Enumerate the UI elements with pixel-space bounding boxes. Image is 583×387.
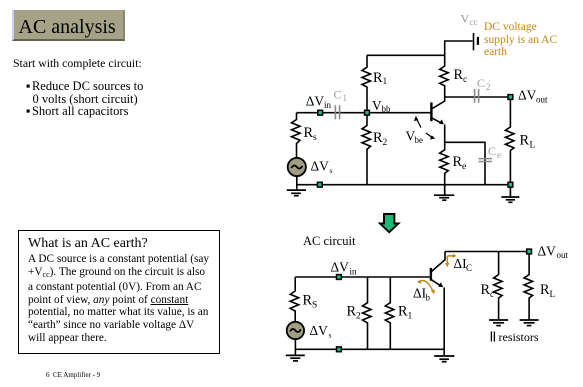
wire bottom rail xyxy=(297,184,511,186)
svg-text:ΔV: ΔV xyxy=(518,88,537,103)
label dVout xyxy=(518,88,548,105)
svg-text:ΔV: ΔV xyxy=(331,260,350,275)
wire Vcc stub xyxy=(445,41,473,55)
svg-text:ΔV: ΔV xyxy=(311,159,330,174)
svg-text:L: L xyxy=(530,140,536,150)
node RL bottom dot xyxy=(508,182,513,187)
svg-text:R: R xyxy=(540,282,550,298)
svg-text:1: 1 xyxy=(343,93,348,103)
svg-text:C: C xyxy=(488,144,496,158)
transistor Q (AC) xyxy=(431,252,445,357)
svg-text:ΔV: ΔV xyxy=(310,323,329,338)
svg-text:R: R xyxy=(481,282,491,298)
svg-text:2: 2 xyxy=(486,82,491,92)
svg-text:ΔI: ΔI xyxy=(454,256,467,271)
svg-text:be: be xyxy=(415,135,424,145)
ground under RL xyxy=(501,185,519,203)
label parallel resistors xyxy=(491,332,494,342)
svg-text:s: s xyxy=(330,166,333,175)
svg-text:2: 2 xyxy=(356,312,361,322)
resistor Re xyxy=(440,142,467,184)
svg-text:b: b xyxy=(426,293,431,303)
resistor R2 xyxy=(362,113,388,185)
battery Vcc supply xyxy=(474,33,478,50)
wire collector to output through C2 xyxy=(445,96,511,98)
label dVin xyxy=(306,93,332,110)
svg-text:R: R xyxy=(304,125,314,141)
ground bottom-left xyxy=(286,355,305,361)
resistor RL (AC) xyxy=(524,252,555,321)
green arrow down xyxy=(380,214,399,232)
wire input top (base line) xyxy=(295,276,430,278)
svg-text:in: in xyxy=(350,267,358,277)
svg-text:V: V xyxy=(461,12,470,26)
wire source to ground xyxy=(296,176,298,190)
svg-text:C: C xyxy=(466,263,472,273)
transistor Q1 xyxy=(431,97,444,142)
resistor R2 (AC) xyxy=(347,277,372,349)
svg-text:2: 2 xyxy=(383,138,388,148)
svg-text:e: e xyxy=(497,150,501,160)
svg-text:R: R xyxy=(373,130,383,146)
svg-text:R: R xyxy=(373,70,383,86)
ground under Re xyxy=(434,185,454,201)
node input dot xyxy=(318,110,323,115)
svg-text:R: R xyxy=(303,293,313,309)
resistor RS xyxy=(290,277,317,322)
svg-text:out: out xyxy=(536,94,548,104)
svg-text:s: s xyxy=(329,331,332,340)
resistor R1 xyxy=(362,55,388,112)
capacitor Ce (shorted, gray) xyxy=(479,144,502,162)
what is an AC earth box xyxy=(18,230,220,354)
resistor RL xyxy=(505,97,535,185)
svg-text:s: s xyxy=(313,133,317,143)
svg-text:V: V xyxy=(372,98,382,113)
svg-text:1: 1 xyxy=(383,77,388,87)
ground left xyxy=(287,190,306,196)
svg-text:e: e xyxy=(462,162,466,172)
AC circuit label xyxy=(303,234,355,249)
svg-text:resistors: resistors xyxy=(499,330,539,344)
label dIC with orange arrow xyxy=(445,254,472,273)
node bottom-left dot xyxy=(317,182,322,187)
resistor Rc xyxy=(440,55,468,97)
wire bottom rail (AC) xyxy=(295,348,444,350)
source dVs xyxy=(288,158,333,176)
node Vbb dot xyxy=(365,110,370,115)
svg-text:1: 1 xyxy=(408,312,413,322)
note: DC voltage supply is an AC earth xyxy=(484,21,557,59)
svg-text:ΔV: ΔV xyxy=(306,93,325,108)
svg-text:cc: cc xyxy=(470,17,478,27)
label Vbe with arrows xyxy=(406,116,436,145)
heading: Start with complete circuit xyxy=(13,56,142,71)
ground under RL (AC) xyxy=(520,320,539,326)
label dIb with orange arrow xyxy=(413,280,435,303)
wire collector to output (AC) xyxy=(445,251,529,253)
resistor R1 (AC) xyxy=(385,277,412,349)
label dVout (AC) xyxy=(538,243,569,260)
svg-text:R: R xyxy=(454,67,464,83)
node bottom dot (AC) xyxy=(337,347,342,352)
ground under Rc (AC) xyxy=(489,320,508,326)
ground under emitter (AC) xyxy=(434,356,454,362)
wire source to ground (bottom) xyxy=(294,339,296,355)
label Vcc xyxy=(461,12,478,28)
label Vbb xyxy=(372,98,391,114)
svg-text:ΔI: ΔI xyxy=(413,286,426,301)
svg-text:ΔV: ΔV xyxy=(538,243,557,258)
footer: slide number xyxy=(46,371,100,379)
svg-text:bb: bb xyxy=(382,104,392,114)
label dVin (AC) xyxy=(331,260,358,277)
resistor Rs xyxy=(292,113,318,159)
wire top rail xyxy=(367,54,445,56)
title box: AC analysis xyxy=(12,10,125,41)
svg-text:C: C xyxy=(477,76,485,90)
node output dot xyxy=(508,95,513,100)
wire emitter to Ce branch xyxy=(445,142,485,184)
svg-text:c: c xyxy=(463,75,467,85)
svg-text:R: R xyxy=(520,132,530,148)
capacitor C1 (shorted, gray) xyxy=(334,88,348,120)
svg-text:R: R xyxy=(398,304,408,320)
svg-text:in: in xyxy=(324,100,332,110)
svg-text:R: R xyxy=(347,304,357,320)
svg-text:c: c xyxy=(490,290,494,300)
svg-text:S: S xyxy=(312,301,317,311)
svg-text:out: out xyxy=(557,250,569,260)
svg-text:C: C xyxy=(334,88,342,102)
node output dot (AC) xyxy=(527,249,532,254)
node dVin dot (AC) xyxy=(337,275,342,280)
source dVs (bottom) xyxy=(287,322,332,340)
capacitor C2 (shorted, gray) xyxy=(475,76,491,103)
bullet list xyxy=(26,80,143,118)
svg-text:R: R xyxy=(453,154,463,170)
svg-text:L: L xyxy=(550,290,556,300)
wire input line to base xyxy=(297,112,432,114)
resistor Rc (AC) xyxy=(481,252,503,321)
